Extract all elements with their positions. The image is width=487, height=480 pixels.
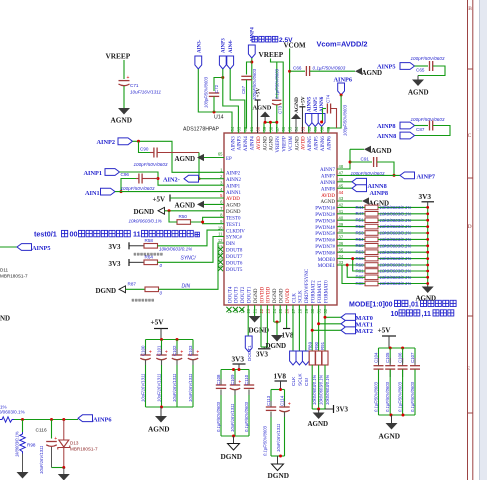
svg-text:AINP6: AINP6	[327, 136, 332, 151]
svg-text:10k0/0603/0.1%: 10k0/0603/0.1%	[129, 219, 162, 224]
capacitor C87	[415, 125, 429, 127]
svg-text:AGND: AGND	[148, 425, 170, 434]
capacitor C105	[389, 348, 391, 364]
svg-text:53: 53	[300, 126, 305, 131]
svg-text:MAT2: MAT2	[356, 328, 373, 335]
wire	[289, 49, 291, 134]
svg-text:R91: R91	[320, 341, 325, 350]
diode D13	[63, 420, 65, 441]
svg-text:0.1µF/50V/0603: 0.1µF/50V/0603	[385, 381, 390, 412]
svg-text:U14: U14	[214, 115, 224, 121]
svg-text:+: +	[238, 380, 241, 386]
capacitor C73	[276, 62, 278, 99]
wire	[223, 69, 239, 133]
ground AGND pin43	[337, 200, 362, 202]
ground AGND C100 block	[160, 407, 162, 416]
svg-text:MODE1: MODE1	[318, 264, 336, 269]
svg-text:AINP5: AINP5	[315, 136, 320, 151]
svg-text:3V3: 3V3	[109, 243, 122, 251]
svg-text:D13: D13	[70, 441, 79, 446]
svg-text:+: +	[165, 350, 168, 356]
svg-text:R53: R53	[356, 230, 365, 235]
svg-text:100pF/50V/0603: 100pF/50V/0603	[203, 76, 208, 108]
wire	[123, 86, 125, 108]
svg-text:VREFP: VREFP	[283, 136, 288, 152]
ground AGND	[118, 108, 130, 115]
junction	[279, 388, 282, 391]
svg-text:0.1µF/50V/0603: 0.1µF/50V/0603	[263, 425, 268, 456]
junction	[21, 418, 24, 421]
svg-text:CS!: CS!	[304, 378, 310, 386]
svg-text:AINP5: AINP5	[32, 245, 51, 252]
svg-text:SCLK: SCLK	[299, 290, 304, 303]
svg-text:10uF/16V/1311: 10uF/16V/1311	[156, 374, 161, 402]
wire bus bottom	[379, 414, 416, 416]
svg-text:DOUT6: DOUT6	[226, 261, 243, 266]
junction	[120, 190, 123, 193]
sheet border right margin	[480, 0, 487, 480]
svg-text:10uF/16V/1311: 10uF/16V/1311	[276, 424, 281, 452]
power 1V8 DVDD	[286, 305, 288, 329]
svg-text:AGND: AGND	[379, 432, 401, 441]
svg-text:SYNC/: SYNC/	[181, 255, 197, 261]
capacitor C71	[119, 80, 130, 82]
svg-text:44: 44	[339, 190, 344, 195]
svg-text:C108: C108	[216, 374, 221, 385]
svg-text:3V3: 3V3	[232, 355, 245, 364]
svg-text:10k0/0603/0.1%: 10k0/0603/0.1%	[380, 281, 412, 286]
svg-text:0: 0	[160, 290, 163, 295]
svg-text:DOUT4: DOUT4	[228, 286, 233, 303]
ground AGND C91	[350, 148, 364, 150]
svg-text:EP: EP	[226, 157, 232, 162]
wire FORMAT2	[311, 305, 313, 351]
capacitor C67	[247, 62, 252, 75]
ground DGND pins24-25	[273, 305, 275, 322]
svg-text:DGND: DGND	[134, 208, 155, 216]
svg-text:PWDN3#: PWDN3#	[315, 219, 335, 224]
svg-text:C90: C90	[140, 147, 149, 152]
svg-text:R51: R51	[356, 218, 365, 223]
junction	[390, 414, 393, 417]
svg-text:1V8: 1V8	[282, 332, 295, 340]
svg-text:C107: C107	[410, 352, 415, 363]
svg-text:AINN6: AINN6	[321, 136, 326, 151]
no-connect marks DOUT4-2	[226, 307, 231, 312]
svg-text:+: +	[149, 350, 152, 356]
note sync text	[134, 253, 136, 255]
svg-text:0.1µF/50V/0603: 0.1µF/50V/0603	[216, 401, 221, 432]
svg-text:DGND: DGND	[268, 471, 290, 480]
note voltage ref text	[252, 36, 257, 42]
junction	[389, 347, 392, 350]
svg-text:DOUT5: DOUT5	[226, 268, 243, 273]
svg-text:DGND: DGND	[266, 342, 287, 350]
svg-text:R52: R52	[356, 224, 365, 229]
svg-text:C110: C110	[244, 374, 249, 385]
svg-text:1V8: 1V8	[274, 372, 287, 381]
svg-text:AINP8: AINP8	[377, 123, 396, 130]
wire FORMAT1	[318, 305, 320, 351]
svg-text:10uF/16V/1311: 10uF/16V/1311	[140, 374, 145, 402]
svg-text:PWDN2#: PWDN2#	[315, 213, 335, 218]
svg-text:IOVDD: IOVDD	[260, 287, 265, 303]
svg-text:MODE0: MODE0	[318, 258, 336, 263]
svg-text:AINP4: AINP4	[251, 136, 256, 151]
svg-text:+: +	[54, 436, 57, 442]
svg-text:+5V: +5V	[153, 196, 166, 204]
wire bus top	[221, 369, 249, 371]
svg-text:AINP3: AINP3	[221, 38, 226, 53]
svg-text:10k0/0603/0.1%: 10k0/0603/0.1%	[380, 224, 412, 229]
svg-text:C104: C104	[373, 352, 378, 363]
svg-text:AGND: AGND	[295, 136, 300, 151]
svg-text:10uF/16V/1311: 10uF/16V/1311	[130, 90, 162, 95]
wire	[337, 149, 350, 169]
svg-text:AIN3-: AIN3-	[198, 39, 203, 53]
svg-text:C: C	[468, 133, 472, 139]
svg-text:PWDN5#: PWDN5#	[315, 232, 335, 237]
svg-text:test0/1: test0/1	[34, 230, 57, 239]
svg-text:R87: R87	[128, 281, 137, 286]
svg-text:10k0/0603/0.1%: 10k0/0603/0.1%	[380, 211, 412, 216]
svg-text:AGND: AGND	[371, 147, 392, 155]
ground AGND C104 block	[391, 415, 393, 423]
ground AGND R98	[22, 454, 24, 473]
svg-text:DGND: DGND	[280, 288, 285, 303]
svg-text:C116: C116	[36, 428, 47, 434]
svg-text:R90: R90	[314, 341, 319, 350]
ground DGND pin21	[254, 305, 256, 316]
svg-text:R98: R98	[27, 443, 36, 448]
svg-text:AIN1-: AIN1-	[85, 190, 102, 197]
svg-text:D11: D11	[0, 268, 9, 273]
svg-text:PWDN7#: PWDN7#	[315, 245, 335, 250]
junction	[137, 140, 140, 143]
svg-text:AVDD: AVDD	[257, 136, 262, 150]
wire	[123, 60, 125, 79]
port AINP8 pin45	[337, 187, 352, 189]
capacitor C103	[192, 340, 194, 355]
svg-text:SCLK: SCLK	[298, 373, 304, 386]
wire bus bottom	[271, 455, 285, 457]
svg-text:AGND: AGND	[416, 295, 437, 303]
svg-text:0.1µF/50V/0603: 0.1µF/50V/0603	[397, 381, 402, 412]
svg-text:R54: R54	[356, 237, 365, 242]
svg-text:CLK: CLK	[291, 376, 297, 386]
svg-text:10uF/16V/1311: 10uF/16V/1311	[39, 446, 44, 474]
svg-text:00: 00	[70, 230, 78, 239]
wire	[52, 467, 64, 469]
svg-text:AGND: AGND	[362, 69, 383, 77]
svg-text:10: 10	[218, 225, 223, 230]
capacitor C101	[161, 340, 163, 355]
svg-text:AINN5: AINN5	[307, 96, 312, 112]
svg-text:C114: C114	[279, 395, 284, 406]
svg-text:1k/0603/0.1%: 1k/0603/0.1%	[15, 431, 20, 457]
svg-text:MBR180S1-7: MBR180S1-7	[0, 274, 28, 279]
svg-text:PWDN6#: PWDN6#	[315, 239, 335, 244]
svg-text:0.1µF/50V/0603: 0.1µF/50V/0603	[313, 66, 346, 71]
wire MAT2	[312, 329, 341, 331]
svg-text:AINN7: AINN7	[320, 168, 335, 173]
port CS! down	[305, 305, 307, 351]
svg-text:10k0/0603/0.1%: 10k0/0603/0.1%	[380, 256, 412, 261]
junction	[317, 408, 320, 411]
svg-text:ND: ND	[0, 315, 10, 323]
wire	[198, 69, 232, 133]
svg-text:AINP5: AINP5	[314, 97, 319, 112]
svg-text:MODE[1:0]00: MODE[1:0]00	[349, 301, 393, 308]
junction	[349, 161, 352, 164]
wire pin47	[337, 174, 400, 176]
svg-text:C109: C109	[230, 374, 235, 385]
sheet border lines	[467, 0, 469, 480]
wire	[133, 141, 225, 172]
wire MODE0 tap	[353, 259, 365, 271]
svg-text:65: 65	[218, 152, 223, 157]
svg-text:AGND: AGND	[226, 204, 241, 209]
svg-text:12: 12	[218, 238, 223, 243]
port SCLK down	[298, 305, 300, 351]
resistor R91	[322, 351, 328, 365]
svg-text:CLKDIV: CLKDIV	[226, 229, 245, 234]
svg-text:FORMAT2: FORMAT2	[312, 280, 317, 303]
svg-text:C66: C66	[293, 65, 302, 70]
capacitor C110	[248, 370, 250, 385]
ground AGND D13	[63, 468, 65, 475]
svg-text:CLK: CLK	[292, 293, 297, 303]
wire bus top	[379, 347, 416, 349]
svg-text:100pF/50V/0603: 100pF/50V/0603	[411, 117, 445, 122]
svg-text:AGND: AGND	[308, 420, 329, 428]
svg-text:TEST1: TEST1	[226, 223, 241, 228]
svg-text:R47: R47	[356, 211, 365, 216]
svg-text:C71: C71	[130, 83, 139, 88]
capacitor C116	[51, 420, 53, 439]
capacitor C108	[220, 370, 222, 385]
svg-text:DVDD: DVDD	[286, 288, 291, 303]
svg-text:10uF/16V/1311: 10uF/16V/1311	[172, 374, 177, 402]
svg-text:DOUT1: DOUT1	[248, 286, 253, 303]
svg-text:10k0/0603/0.1%: 10k0/0603/0.1%	[159, 246, 192, 251]
capacitor C106	[402, 348, 404, 364]
svg-text:34: 34	[339, 254, 344, 259]
ground AGND R89-91	[318, 409, 320, 413]
capacitor C74	[323, 108, 327, 110]
junction	[160, 338, 163, 341]
port CLK down	[292, 305, 294, 351]
svg-text:AINN4: AINN4	[244, 136, 249, 151]
svg-text:C65: C65	[416, 68, 425, 73]
svg-text:DOUT7: DOUT7	[226, 255, 243, 260]
svg-text:B: B	[468, 6, 472, 12]
svg-text:VCOM: VCOM	[284, 42, 307, 50]
svg-text:R68: R68	[356, 262, 365, 267]
svg-text:11: 11	[133, 230, 141, 239]
svg-text:AINP1: AINP1	[226, 184, 241, 189]
svg-text:0: 0	[160, 263, 163, 268]
resistor R60	[337, 245, 365, 247]
svg-text:+: +	[180, 350, 183, 356]
svg-text:DGND: DGND	[249, 327, 270, 335]
svg-text:R58: R58	[145, 238, 154, 243]
resistor R66	[337, 258, 365, 260]
resistor R53	[337, 232, 365, 234]
svg-text:100pF/50V/0603: 100pF/50V/0603	[121, 186, 155, 191]
svg-text:IOVDD: IOVDD	[267, 287, 272, 303]
wire	[251, 58, 253, 133]
port MAT2	[341, 327, 356, 334]
svg-text:3V3: 3V3	[336, 406, 349, 414]
svg-text:,11: ,11	[422, 311, 431, 318]
junction	[157, 177, 160, 180]
svg-text:AGND: AGND	[175, 202, 196, 210]
junction	[264, 121, 267, 124]
svg-text:AINP2: AINP2	[97, 139, 116, 146]
svg-text:AINP4: AINP4	[250, 27, 255, 42]
svg-text:VCOM: VCOM	[289, 136, 294, 152]
port MAT0	[341, 314, 356, 321]
svg-text:DGND: DGND	[226, 210, 241, 215]
wire	[199, 178, 225, 180]
svg-text:0.1µF/50V/0603: 0.1µF/50V/0603	[244, 401, 249, 432]
wire MAT0	[325, 316, 341, 318]
svg-text:C100: C100	[140, 345, 145, 356]
junction	[168, 209, 171, 212]
wire	[115, 191, 224, 193]
wire	[271, 59, 284, 134]
junction	[198, 177, 201, 180]
junction	[288, 70, 291, 73]
svg-text:10: 10	[391, 311, 399, 318]
resistor R98	[22, 420, 24, 433]
junction	[201, 221, 204, 224]
svg-text:AINP2: AINP2	[226, 172, 241, 177]
wire	[247, 305, 249, 336]
junction	[340, 94, 343, 97]
svg-text:AGND: AGND	[321, 200, 336, 205]
svg-text:C91: C91	[361, 157, 370, 162]
resistor R63	[337, 251, 365, 253]
wire row13 tap	[337, 264, 342, 266]
svg-text:PWDN4#: PWDN4#	[315, 226, 335, 231]
port AINP5 left	[17, 244, 32, 251]
ground DGND C113 block	[277, 456, 279, 464]
svg-text:0.1µF/50V/0603: 0.1µF/50V/0603	[373, 381, 378, 412]
power 3V3 IOVDD	[260, 305, 262, 347]
svg-text:AINP6: AINP6	[334, 77, 353, 84]
svg-text:10k0/0603/0.1%: 10k0/0603/0.1%	[380, 269, 412, 274]
svg-text:1k0/0603/0.1%: 1k0/0603/0.1%	[0, 409, 25, 414]
svg-text:3V3: 3V3	[109, 260, 122, 268]
ground AGND stack	[427, 286, 429, 287]
ground AGND C66	[355, 68, 362, 75]
svg-text:10k0/0603/0.1%: 10k0/0603/0.1%	[380, 205, 412, 210]
svg-text:AINP6: AINP6	[93, 416, 112, 423]
svg-text:3V3: 3V3	[256, 351, 269, 359]
svg-text:10k0/0603/0.1%: 10k0/0603/0.1%	[380, 250, 412, 255]
wire bus bottom	[146, 406, 194, 408]
wire	[328, 95, 341, 133]
wire bus top	[146, 339, 194, 341]
resistor R54	[337, 238, 365, 240]
capacitor C100	[145, 340, 147, 355]
junction	[232, 435, 235, 438]
svg-text:C74: C74	[326, 94, 331, 103]
svg-text:AGND: AGND	[270, 136, 275, 151]
wire	[14, 419, 78, 421]
svg-text:DOUT1: DOUT1	[247, 345, 252, 361]
svg-text:SYNC#: SYNC#	[226, 236, 242, 241]
wire bus bottom	[221, 435, 249, 437]
capacitor C72	[214, 78, 223, 92]
svg-text:AVDD: AVDD	[226, 197, 240, 202]
svg-text:C106: C106	[397, 352, 402, 363]
wire	[198, 153, 200, 179]
wire 3V3 rail	[427, 209, 429, 286]
svg-text:D: D	[468, 224, 472, 230]
wire	[120, 172, 225, 185]
svg-text:DRDY#/FSYNC: DRDY#/FSYNC	[305, 268, 310, 303]
svg-text:AINN1: AINN1	[226, 191, 241, 196]
svg-text:100pF/50V/0603: 100pF/50V/0603	[343, 104, 348, 136]
svg-text:DGND: DGND	[254, 288, 259, 303]
svg-text:10k0/0603/0.1%: 10k0/0603/0.1%	[380, 275, 412, 280]
svg-text:100pF/50V/0603: 100pF/50V/0603	[134, 162, 168, 167]
note adc zero text	[132, 299, 134, 301]
capacitor C109	[234, 370, 236, 385]
wire MODE1 tap	[347, 265, 365, 277]
svg-text:C102: C102	[172, 345, 177, 356]
junction	[62, 466, 65, 469]
port AINP6 bottom	[78, 415, 93, 422]
svg-text:FORMAT0: FORMAT0	[324, 280, 329, 303]
svg-text:AGND: AGND	[111, 116, 133, 125]
capacitor C104	[378, 348, 380, 364]
wire MAT1	[319, 323, 341, 325]
svg-text:10k0/0603/0.1%: 10k0/0603/0.1%	[380, 243, 412, 248]
svg-text:+5V: +5V	[151, 318, 165, 327]
svg-text:C73: C73	[278, 105, 283, 114]
wire bus R89-91	[312, 408, 325, 410]
junction	[393, 174, 396, 177]
svg-text:DIN: DIN	[182, 283, 191, 289]
resistor R47	[337, 213, 365, 215]
svg-text:C67: C67	[241, 85, 246, 94]
svg-text:C87: C87	[416, 127, 425, 132]
svg-text:R44: R44	[356, 205, 365, 210]
junction	[221, 76, 224, 79]
svg-text:C105: C105	[385, 352, 390, 363]
svg-text:C96: C96	[121, 172, 130, 177]
port AINN8 pin46	[337, 181, 352, 183]
svg-text:AINP1: AINP1	[84, 170, 103, 177]
wire FORMAT0	[324, 305, 326, 351]
svg-text:+5V: +5V	[378, 326, 392, 335]
svg-text:MBR180S1-7: MBR180S1-7	[70, 447, 98, 452]
svg-text:0.1µF/50V/0603: 0.1µF/50V/0603	[410, 381, 415, 412]
svg-text:10k0/0603/0.1%: 10k0/0603/0.1%	[380, 237, 412, 242]
svg-text:AINP7: AINP7	[417, 173, 436, 180]
op IC U14 body ADS1278HPAP	[224, 133, 337, 305]
svg-text:AGND: AGND	[294, 97, 300, 113]
capacitor C113	[270, 390, 272, 407]
svg-text:AINN8: AINN8	[377, 133, 396, 140]
svg-text:DGND: DGND	[96, 287, 117, 295]
wire	[230, 69, 245, 133]
svg-text:+5V: +5V	[256, 88, 262, 98]
